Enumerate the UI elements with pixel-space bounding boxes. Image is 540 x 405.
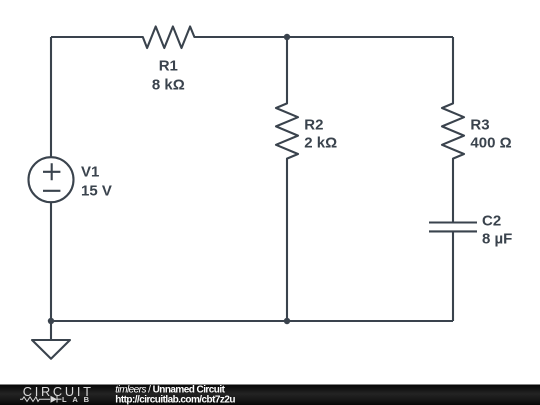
svg-text:R2: R2 [304, 117, 323, 134]
svg-text:http://circuitlab.com/cbt7z2u: http://circuitlab.com/cbt7z2u [115, 395, 235, 405]
svg-text:400 Ω: 400 Ω [470, 135, 511, 152]
svg-text:LAB: LAB [62, 395, 95, 404]
svg-text:V1: V1 [81, 164, 99, 181]
svg-text:R3: R3 [470, 117, 489, 134]
svg-text:8 kΩ: 8 kΩ [152, 76, 185, 93]
svg-text:2 kΩ: 2 kΩ [304, 135, 337, 152]
svg-text:8 µF: 8 µF [482, 230, 512, 247]
svg-text:R1: R1 [159, 58, 178, 75]
svg-text:C2: C2 [482, 213, 501, 230]
svg-text:15 V: 15 V [81, 183, 112, 200]
